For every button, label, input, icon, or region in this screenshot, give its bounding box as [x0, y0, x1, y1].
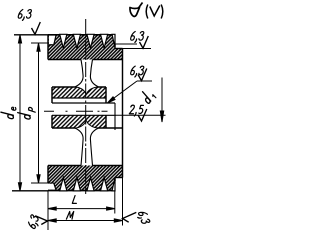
label de — [1, 107, 16, 118]
boss bottom edge — [115, 177, 123, 179]
dimension line de — [18, 35, 21, 191]
roughness 6,3 top-right text — [131, 31, 144, 42]
rim inner edge top — [48, 59, 123, 61]
boss right face — [122, 49, 124, 178]
rim right face at groove band bottom — [114, 178, 116, 182]
shelf line mid-right — [137, 80, 152, 82]
roughness check bottom-right rotated — [123, 212, 137, 222]
general roughness symbol nabla — [130, 3, 143, 17]
hub left face — [51, 87, 53, 128]
hub upper band hatched — [52, 87, 106, 98]
roughness 6,3 bottom-left rotated text — [27, 214, 41, 229]
roughness check bottom-left rotated — [35, 216, 47, 225]
groove V notches bottom — [60, 177, 115, 191]
rim bottom band hatched — [48, 166, 115, 191]
partial groove pocket at bottom-left face — [47, 183, 56, 190]
boss top band hatched — [115, 49, 123, 60]
label M — [66, 211, 73, 219]
bore bottom line — [52, 114, 116, 116]
right extension line groove bottom — [115, 43, 137, 45]
label dp — [18, 107, 36, 119]
roughness check mid-right — [138, 69, 147, 81]
bottom L extension left — [47, 191, 49, 231]
dimension line M — [48, 219, 123, 222]
roughness 6,3 mid-right text — [131, 66, 144, 77]
dimension line L — [48, 207, 115, 210]
hub right face — [105, 87, 107, 128]
hub bottom edge — [52, 127, 123, 129]
roughness check top-right — [140, 36, 149, 48]
web top — [75, 60, 98, 87]
hub lower band hatched — [52, 115, 106, 128]
roughness check top-left — [32, 22, 41, 34]
vertical centerline — [85, 19, 87, 194]
rim top band hatched — [48, 35, 115, 60]
label d1 — [139, 89, 156, 105]
roughness check 2,5 — [138, 109, 147, 121]
rim left face top — [47, 35, 49, 60]
rim top outline: tooth tops — [48, 34, 112, 36]
web fillet dome on hub bottom band (unhatched) — [75, 120, 98, 128]
bore top line — [52, 102, 115, 104]
bottom extension line de — [12, 190, 48, 192]
roughness 2,5 text — [129, 105, 143, 116]
roughness 6,3 top-left text — [18, 9, 31, 20]
bottom M extension right — [122, 178, 124, 226]
right extension line boss top — [123, 48, 152, 50]
horizontal axis centerline — [44, 110, 108, 112]
top extension line de — [14, 34, 48, 36]
boss bottom band hatched — [115, 166, 123, 178]
rim right face at groove band top — [114, 44, 116, 49]
bottom extension line dp — [31, 182, 54, 184]
rim left face bottom — [47, 166, 49, 184]
top extension line dp — [31, 42, 48, 44]
rim inner edge bottom — [48, 165, 123, 167]
groove V notches top — [60, 34, 115, 48]
boss top edge — [115, 48, 123, 50]
general roughness parentheses check — [146, 5, 163, 19]
partial groove pocket at top-left face — [49, 35, 56, 45]
dimension line dp — [37, 43, 40, 183]
dimension d1 line with down arrow — [160, 78, 163, 123]
right extension line bore d1 — [116, 114, 166, 116]
leader with arrow to bore edge — [107, 81, 137, 103]
label L — [72, 196, 76, 204]
bottom L extension right — [114, 191, 116, 214]
boss inner vertical line — [114, 103, 116, 130]
keyway floor line — [52, 97, 106, 99]
rim bottom outline: tooth bottoms — [48, 190, 112, 192]
web bottom — [75, 128, 98, 165]
web fillet dome on hub top band (unhatched) — [75, 87, 98, 95]
roughness 6,3 bottom-right rotated text — [136, 210, 150, 225]
hub top edge — [52, 86, 106, 88]
